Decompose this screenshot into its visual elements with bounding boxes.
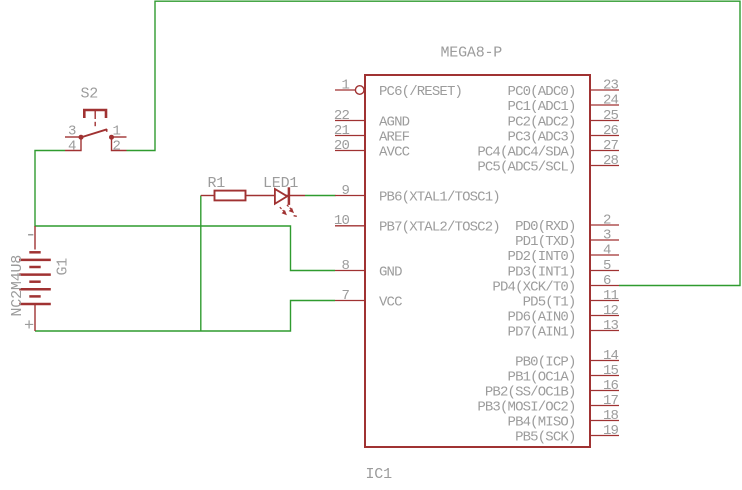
svg-text:PC4(ADC4/SDA): PC4(ADC4/SDA) (477, 144, 575, 160)
svg-text:12: 12 (603, 303, 619, 319)
svg-text:PD1(TXD): PD1(TXD) (515, 234, 575, 250)
IC1 pin 27 PC4(ADC4/SDA) (477, 138, 619, 161)
IC1 pin 5 PD3(INT1) (508, 258, 619, 281)
svg-text:PD3(INT1): PD3(INT1) (508, 264, 576, 280)
LED1 light arrow 1 (280, 207, 287, 215)
svg-text:19: 19 (603, 423, 619, 439)
svg-text:27: 27 (603, 138, 619, 154)
svg-text:PD2(INT0): PD2(INT0) (508, 249, 576, 265)
svg-text:22: 22 (334, 108, 350, 124)
svg-text:PB0(ICP): PB0(ICP) (515, 354, 575, 370)
svg-text:28: 28 (603, 153, 619, 169)
IC1 pin 18 PB4(MISO) (508, 408, 619, 431)
svg-text:AVCC: AVCC (379, 144, 410, 160)
svg-text:2: 2 (113, 138, 121, 154)
svg-text:VCC: VCC (379, 294, 402, 310)
svg-text:2: 2 (603, 212, 611, 228)
wire: branch from battery plus wire up to R1 left lead (200, 196, 202, 332)
svg-text:13: 13 (603, 318, 619, 334)
svg-text:24: 24 (603, 92, 619, 108)
svg-text:21: 21 (334, 123, 350, 139)
svg-text:15: 15 (603, 363, 619, 379)
svg-text:17: 17 (603, 393, 619, 409)
svg-text:AGND: AGND (379, 114, 410, 130)
IC1 pin 12 PD6(AIN0) (508, 303, 619, 326)
switch S2 junction dot pins 1/2 (109, 135, 114, 140)
svg-text:PC6(/RESET): PC6(/RESET) (379, 84, 462, 100)
svg-text:PB5(SCK): PB5(SCK) (515, 429, 575, 445)
IC1 pin 11 PD5(T1) (523, 288, 619, 311)
battery G1 (NC2M4U8) (19, 226, 51, 331)
IC1 pin 10 PB7(XTAL2/TOSC2) (334, 213, 500, 236)
IC1 pin 20 AVCC (334, 138, 410, 161)
IC1 pin 15 PB1(OC1A) (508, 363, 619, 386)
svg-text:+: + (24, 317, 34, 336)
svg-text:R1: R1 (208, 175, 226, 192)
IC1 pin 9 PB6(XTAL1/TOSC1) (335, 183, 500, 206)
svg-text:8: 8 (341, 258, 349, 274)
svg-text:5: 5 (603, 258, 611, 274)
switch S2 junction dot pins 3/4 (79, 135, 84, 140)
wire: switch pin 4 left, down to battery minus, right and down to IC pin 8 (GND) (35, 151, 335, 271)
svg-text:3: 3 (603, 227, 611, 243)
svg-text:20: 20 (334, 138, 350, 154)
svg-text:MEGA8-P: MEGA8-P (441, 44, 503, 61)
svg-text:PB4(MISO): PB4(MISO) (508, 414, 576, 430)
IC1 pin 23 PC0(ADC0) (508, 77, 619, 100)
svg-text:PD4(XCK/T0): PD4(XCK/T0) (492, 279, 575, 295)
IC1 pin 4 PD2(INT0) (508, 242, 619, 265)
svg-text:11: 11 (603, 288, 619, 304)
svg-text:9: 9 (341, 183, 349, 199)
svg-text:NC2M4U8: NC2M4U8 (9, 255, 26, 317)
svg-text:PB2(SS/OC1B): PB2(SS/OC1B) (485, 384, 576, 400)
IC1 pin 13 PD7(AIN1) (508, 318, 619, 341)
svg-text:PB7(XTAL2/TOSC2): PB7(XTAL2/TOSC2) (379, 220, 500, 236)
svg-text:16: 16 (603, 378, 619, 394)
IC1 pin 6 PD4(XCK/T0) (492, 273, 619, 296)
IC1 pin 25 PC2(ADC2) (508, 108, 619, 130)
IC1 pin 14 PB0(ICP) (515, 348, 619, 371)
svg-text:LED1: LED1 (263, 175, 298, 192)
IC1 pin 8 GND (335, 258, 402, 281)
IC1 pin 7 VCC (335, 288, 402, 311)
svg-text:PC1(ADC1): PC1(ADC1) (508, 99, 576, 115)
svg-text:4: 4 (603, 242, 611, 258)
svg-text:25: 25 (603, 108, 619, 124)
svg-text:PC2(ADC2): PC2(ADC2) (508, 114, 576, 130)
svg-text:PD6(AIN0): PD6(AIN0) (508, 309, 576, 325)
svg-text:4: 4 (68, 138, 76, 154)
svg-text:-: - (25, 224, 36, 246)
svg-text:1: 1 (341, 77, 349, 93)
svg-text:10: 10 (334, 213, 350, 229)
wire: LED1 cathode to IC pin 9 (PB6) (305, 195, 336, 197)
IC1 pin 22 AGND (334, 108, 410, 130)
svg-text:23: 23 (603, 77, 619, 93)
IC1 pin 26 PC3(ADC3) (508, 123, 619, 146)
IC1 pin 21 AREF (334, 123, 410, 146)
svg-text:GND: GND (379, 264, 402, 280)
IC1 pin 3 PD1(TXD) (515, 227, 619, 250)
svg-text:PD0(RXD): PD0(RXD) (515, 219, 575, 235)
svg-text:PD7(AIN1): PD7(AIN1) (508, 324, 576, 340)
svg-text:1: 1 (113, 124, 121, 140)
svg-text:AREF: AREF (379, 129, 410, 145)
IC1 pin 1 PC6(/RESET) (335, 77, 462, 100)
IC1 pin 19 PB5(SCK) (515, 423, 619, 446)
svg-text:PD5(T1): PD5(T1) (523, 294, 576, 310)
LED1 light arrow 2 (287, 205, 297, 216)
svg-text:PC5(ADC5/SCL): PC5(ADC5/SCL) (477, 159, 575, 175)
svg-text:PC3(ADC3): PC3(ADC3) (508, 129, 576, 145)
LED LED1 (275, 187, 305, 205)
resistor R1 (201, 195, 215, 197)
wire: battery plus to IC pin 7 (VCC) (35, 301, 335, 332)
svg-text:3: 3 (68, 124, 76, 140)
svg-text:26: 26 (603, 123, 619, 139)
svg-text:14: 14 (603, 348, 619, 364)
IC IC1 (ATmega8, MEGA8-P) body (365, 75, 590, 447)
IC1 pin 2 PD0(RXD) (515, 212, 619, 235)
svg-text:7: 7 (341, 288, 349, 304)
IC1 pin 28 PC5(ADC5/SCL) (477, 153, 619, 176)
IC1 pin 16 PB2(SS/OC1B) (485, 378, 619, 401)
svg-text:G1: G1 (55, 258, 72, 276)
svg-text:PB6(XTAL1/TOSC1): PB6(XTAL1/TOSC1) (379, 189, 500, 205)
IC1 pin 24 PC1(ADC1) (508, 92, 619, 115)
svg-text:S2: S2 (81, 85, 99, 102)
svg-text:IC1: IC1 (366, 466, 393, 483)
switch S2 (pushbutton) (65, 110, 127, 151)
wire: net from switch pin 2 up over the top to IC pin 6 (PD4) (127, 1, 741, 285)
svg-text:18: 18 (603, 408, 619, 424)
svg-text:PB3(MOSI/OC2): PB3(MOSI/OC2) (477, 399, 575, 415)
IC1 pin 17 PB3(MOSI/OC2) (477, 393, 619, 416)
svg-text:PC0(ADC0): PC0(ADC0) (508, 84, 576, 100)
svg-text:6: 6 (603, 273, 611, 289)
svg-text:PB1(OC1A): PB1(OC1A) (508, 369, 576, 385)
